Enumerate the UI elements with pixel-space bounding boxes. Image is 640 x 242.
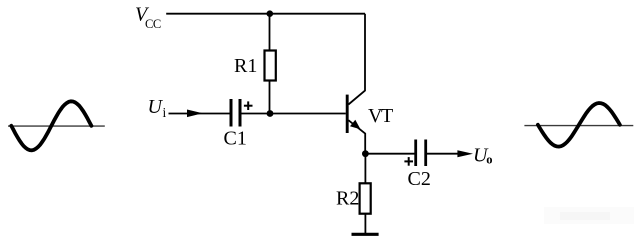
svg-text:R1: R1 <box>234 55 257 77</box>
svg-text:CC: CC <box>145 17 161 31</box>
svg-text:U: U <box>148 96 164 118</box>
svg-text:VT: VT <box>368 105 393 127</box>
svg-text:o: o <box>486 153 492 167</box>
svg-text:i: i <box>163 105 167 120</box>
svg-text:C1: C1 <box>224 128 247 150</box>
svg-text:R2: R2 <box>336 187 359 209</box>
svg-text:C2: C2 <box>408 168 431 190</box>
